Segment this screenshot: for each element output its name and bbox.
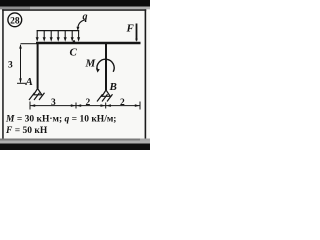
svg-text:F: F: [126, 23, 135, 35]
svg-text:F = 50 кН: F = 50 кН: [5, 126, 48, 136]
svg-text:3: 3: [51, 98, 56, 108]
svg-text:28: 28: [10, 16, 20, 26]
svg-text:B: B: [109, 81, 117, 93]
svg-text:3: 3: [8, 61, 13, 71]
svg-text:2: 2: [120, 98, 125, 108]
svg-text:A: A: [25, 76, 33, 88]
svg-text:2: 2: [86, 98, 91, 108]
svg-text:q: q: [83, 12, 88, 23]
svg-text:M = 30 кН·м; q = 10 кН/м;: M = 30 кН·м; q = 10 кН/м;: [5, 114, 116, 124]
svg-text:C: C: [70, 47, 78, 59]
svg-text:M: M: [85, 58, 97, 70]
